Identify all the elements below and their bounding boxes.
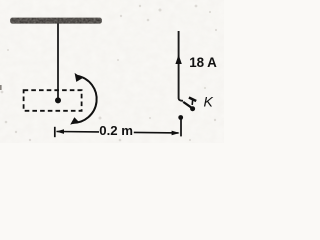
svg-text:K: K bbox=[204, 93, 214, 109]
svg-text:18 A: 18 A bbox=[189, 55, 217, 70]
svg-text:0.2 m: 0.2 m bbox=[99, 123, 133, 138]
